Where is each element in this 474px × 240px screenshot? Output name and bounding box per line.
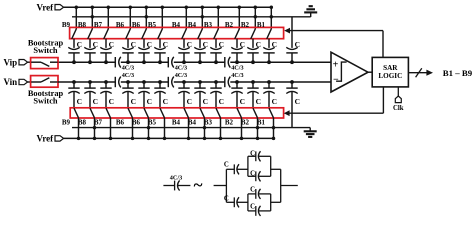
svg-text:4C/3: 4C/3 — [122, 64, 134, 71]
svg-text:C: C — [250, 203, 255, 210]
wire — [220, 118, 222, 139]
node — [235, 80, 239, 84]
capacitor C (bit B3) bottom — [210, 87, 221, 89]
svg-text:B2: B2 — [241, 119, 250, 127]
svg-text:C: C — [93, 40, 98, 49]
svg-text:C: C — [256, 40, 261, 49]
switch B7 top — [104, 29, 109, 39]
node — [214, 60, 218, 64]
wire — [89, 53, 91, 62]
capacitor C (bit B6) top — [122, 47, 133, 49]
capacitor C5 parallel upper — [255, 189, 257, 199]
capacitor C (bit B4) bottom — [194, 87, 205, 89]
wire — [271, 201, 281, 203]
switch B5 top — [158, 29, 163, 39]
port Clk — [395, 96, 401, 103]
wire — [148, 118, 150, 139]
node top rail junction B4 — [185, 5, 189, 9]
wire cap lead B2 top — [252, 39, 254, 48]
capacitor C termination bottom — [286, 87, 297, 89]
svg-text:C: C — [272, 40, 277, 49]
wire — [163, 185, 174, 187]
svg-text:4C/3: 4C/3 — [122, 72, 134, 79]
wire — [258, 210, 270, 212]
svg-text:C: C — [295, 97, 300, 106]
wire — [89, 92, 91, 109]
wire — [248, 175, 256, 177]
switch S2 contacts — [31, 81, 41, 83]
svg-text:B1: B1 — [257, 21, 266, 29]
capacitor C (bit B2) top — [247, 47, 258, 49]
node — [198, 60, 202, 64]
wire loop left — [247, 194, 249, 211]
node — [219, 137, 223, 141]
arrow feedback bottom — [284, 110, 290, 116]
wire loop left — [247, 156, 249, 176]
node — [158, 60, 162, 64]
wire — [248, 155, 256, 157]
wire SAR output — [408, 72, 427, 74]
switch B6 top — [126, 29, 131, 39]
svg-text:B2: B2 — [225, 21, 234, 29]
wire switch column B5 top drop — [161, 7, 163, 29]
node — [235, 60, 239, 64]
switch S1 arm — [41, 62, 49, 66]
wire switch column B7 top drop — [107, 7, 109, 29]
wire — [252, 53, 254, 62]
svg-text:B3: B3 — [204, 21, 213, 29]
svg-text:4C/3: 4C/3 — [175, 64, 187, 71]
svg-text:B6: B6 — [116, 21, 125, 29]
svg-text:SAR: SAR — [383, 64, 398, 72]
capacitor C (bit B1) top — [263, 47, 274, 49]
wire — [257, 118, 259, 139]
switch B6 bottom — [128, 108, 133, 118]
capacitor 4C/3 bridge top — [114, 57, 116, 67]
wire — [241, 118, 243, 139]
wire — [268, 53, 270, 62]
node — [198, 80, 202, 84]
wire — [183, 53, 185, 62]
capacitor C (bit B8) bottom — [84, 87, 95, 89]
wire — [248, 210, 256, 212]
switch B3 bottom — [216, 108, 221, 118]
switch B7 bottom — [106, 108, 111, 118]
svg-text:Vin: Vin — [4, 77, 18, 87]
node — [126, 80, 130, 84]
svg-text:C: C — [147, 97, 152, 106]
wire — [143, 92, 145, 109]
svg-text:4C/3: 4C/3 — [231, 72, 243, 79]
wire — [214, 185, 227, 187]
wire cap lead B4 top — [183, 39, 185, 48]
wire switch column B8 top drop — [91, 7, 93, 29]
node — [267, 80, 271, 84]
switch B1 bottom — [269, 108, 274, 118]
wire — [199, 92, 201, 109]
node — [272, 137, 276, 141]
svg-text:B4: B4 — [172, 21, 181, 29]
svg-text:C: C — [77, 40, 82, 49]
arrow output — [426, 70, 433, 76]
wire SAR feedback bottom vertical — [382, 87, 384, 113]
wire — [258, 175, 270, 177]
capacitor C (bit B4) top — [178, 47, 189, 49]
capacitor C termination top — [286, 47, 297, 49]
switch S1 contacts — [31, 61, 41, 63]
svg-text:C: C — [272, 97, 277, 106]
svg-text:Switch: Switch — [33, 46, 58, 55]
wire Clk stub — [397, 87, 399, 96]
node top rail junction B9 — [75, 5, 79, 9]
wire switch column B4 top drop — [185, 7, 187, 29]
wire SAR feedback bottom horizontal — [289, 112, 383, 114]
switch B4 bottom — [200, 108, 205, 118]
node top rail junction B6 — [145, 5, 149, 9]
switch B2 bottom — [237, 108, 242, 118]
svg-text:C: C — [131, 40, 136, 49]
capacitor 4C/3 bridge bottom — [224, 77, 226, 87]
svg-text:C: C — [295, 40, 300, 49]
wire Vin top-plate rail — [174, 81, 225, 83]
wire — [252, 92, 254, 109]
wire switch column B6 top drop — [129, 7, 131, 29]
svg-text:B9: B9 — [62, 119, 71, 127]
wire — [105, 92, 107, 109]
node — [104, 80, 108, 84]
node — [251, 60, 255, 64]
wire — [143, 53, 145, 62]
switch B9 top — [72, 29, 77, 39]
wire bottom second rail — [72, 127, 310, 129]
capacitor 4C/3 bridge top — [167, 57, 169, 67]
wire right bus — [280, 169, 282, 202]
svg-text:C: C — [131, 97, 136, 106]
wire — [78, 118, 80, 139]
svg-text:C: C — [187, 97, 192, 106]
wire — [237, 201, 248, 203]
wire cap lead B6 top — [127, 39, 129, 48]
switch S2 arm — [41, 78, 49, 82]
svg-text:C: C — [93, 97, 98, 106]
bootstrap switch S1 (red box) — [31, 58, 58, 69]
wire — [183, 92, 185, 109]
svg-text:4C/3: 4C/3 — [170, 174, 182, 181]
node — [182, 80, 186, 84]
capacitor C6 parallel lower — [255, 206, 257, 216]
wire cap lead B1 bottom — [268, 82, 270, 88]
svg-text:Vip: Vip — [4, 57, 18, 67]
node top rail junction B5 — [161, 5, 165, 9]
capacitor C (bit B4) bottom — [178, 87, 189, 89]
wire — [237, 168, 248, 170]
wire — [236, 53, 238, 62]
node second-rail junction B6 — [145, 15, 149, 19]
svg-text:C: C — [219, 97, 224, 106]
svg-text:B5: B5 — [148, 21, 157, 29]
op-amp comparator U1 — [331, 52, 368, 92]
wire — [73, 92, 75, 109]
wire — [226, 201, 234, 203]
capacitor C3 parallel lower — [255, 171, 257, 181]
svg-text:C: C — [203, 97, 208, 106]
node — [214, 80, 218, 84]
wire top second rail — [72, 16, 311, 18]
svg-text:B7: B7 — [94, 21, 103, 29]
wire cap lead B6 top — [143, 39, 145, 48]
svg-text:B1 – B9: B1 – B9 — [443, 68, 473, 78]
wire — [215, 92, 217, 109]
wire left bus — [225, 169, 227, 202]
bootstrap switch S2 (red box) — [31, 76, 58, 88]
latch symbol — [336, 62, 347, 81]
switch B6 top — [142, 29, 147, 39]
wire cap lead B5 top — [159, 39, 161, 48]
wire Vip top-plate rail — [174, 61, 225, 63]
SAR LOGIC block — [372, 57, 408, 87]
wire cap lead B5 bottom — [159, 82, 161, 88]
switch B2 top — [235, 29, 240, 39]
wire cap lead B4 top — [199, 39, 201, 48]
ground bottom — [309, 128, 311, 132]
capacitor C (bit B2) bottom — [231, 87, 242, 89]
svg-text:C: C — [224, 196, 229, 203]
node — [203, 126, 207, 130]
capacitor C4 series bottom branch — [233, 197, 235, 207]
svg-text:C: C — [250, 170, 255, 177]
capacitor C (bit B6) top — [138, 47, 149, 49]
svg-text:B4: B4 — [188, 119, 197, 127]
svg-text:C: C — [256, 97, 261, 106]
wire — [204, 118, 206, 139]
wire Vin top-plate rail — [58, 81, 115, 83]
capacitor C (bit B9) top — [68, 47, 79, 49]
wire — [28, 61, 31, 63]
wire — [73, 53, 75, 62]
svg-text:B2: B2 — [241, 21, 250, 29]
svg-text:C: C — [203, 40, 208, 49]
wire cap lead B2 bottom — [252, 82, 254, 88]
wire — [199, 53, 201, 62]
capacitor C (bit B3) top — [210, 47, 221, 49]
wire cap lead B6 bottom — [127, 82, 129, 88]
capacitor 4C/3 equivalent — [174, 181, 176, 191]
wire cap lead B8 top — [89, 39, 91, 48]
node — [88, 60, 92, 64]
capacitor 4C/3 bridge bottom — [167, 77, 169, 87]
wire SAR feedback top vertical — [382, 31, 384, 58]
wire — [159, 92, 161, 109]
node top rail junction B4 — [201, 5, 205, 9]
svg-text:C: C — [109, 97, 114, 106]
wire — [110, 118, 112, 139]
node second-rail junction B8 — [91, 15, 95, 19]
node second-rail junction B2 — [254, 15, 257, 19]
capacitor C (bit B2) bottom — [247, 87, 258, 89]
wire termination cap top lead — [291, 17, 293, 48]
svg-text:−: − — [333, 75, 339, 86]
node — [267, 60, 271, 64]
svg-text:4C/3: 4C/3 — [175, 72, 187, 79]
svg-text:B7: B7 — [94, 119, 103, 127]
capacitor C (bit B6) bottom — [138, 87, 149, 89]
switch B5 bottom — [160, 108, 165, 118]
svg-text:B3: B3 — [204, 119, 213, 127]
wire — [164, 118, 166, 139]
svg-text:C: C — [224, 161, 229, 168]
switch B2 top — [251, 29, 256, 39]
node — [109, 137, 113, 141]
wire — [188, 118, 190, 139]
wire — [177, 185, 190, 187]
node — [88, 80, 92, 84]
wire cap lead B8 bottom — [89, 82, 91, 88]
svg-text:C: C — [77, 97, 82, 106]
node top rail junction B3 — [217, 5, 221, 9]
node — [104, 60, 108, 64]
svg-text:C: C — [163, 40, 168, 49]
switch B1 top — [267, 29, 272, 39]
wire cap lead B4 bottom — [199, 82, 201, 88]
wire switch column B2 top drop — [238, 7, 240, 29]
svg-text:C: C — [250, 186, 255, 193]
wire loop right — [270, 156, 272, 176]
wire Vin top-plate rail — [121, 81, 169, 83]
capacitor C (bit B8) top — [84, 47, 95, 49]
wire — [248, 193, 256, 195]
wire — [271, 168, 281, 170]
svg-text:Clk: Clk — [393, 105, 404, 112]
svg-text:B6: B6 — [116, 119, 125, 127]
svg-text:B9: B9 — [62, 21, 71, 29]
node — [240, 137, 244, 141]
wire — [127, 92, 129, 109]
wire cap lead B4 bottom — [183, 82, 185, 88]
svg-text:+: + — [333, 60, 339, 71]
wire — [281, 185, 298, 187]
svg-text:B6: B6 — [132, 119, 141, 127]
wire Vip top-plate rail — [121, 61, 169, 63]
wire — [28, 81, 31, 83]
svg-text:4C/3: 4C/3 — [231, 64, 243, 71]
wire cap lead B6 bottom — [143, 82, 145, 88]
svg-text:C: C — [219, 40, 224, 49]
wire cap lead B2 top — [236, 39, 238, 48]
wire — [127, 53, 129, 62]
wire switch column B4 top drop — [201, 7, 203, 29]
switch B4 top — [182, 29, 187, 39]
wire cap lead B1 top — [268, 39, 270, 48]
capacitor C1 series top branch — [233, 164, 235, 174]
wire — [215, 53, 217, 62]
wire cap lead B9 top — [73, 39, 75, 48]
svg-text:C: C — [240, 97, 245, 106]
wire switch column B9 top drop — [75, 7, 77, 29]
bus slash — [416, 68, 422, 77]
wire Vip top-plate rail — [230, 61, 331, 63]
wire — [258, 155, 270, 157]
node — [72, 80, 76, 84]
wire switch column B3 top drop — [217, 7, 219, 29]
svg-text:B8: B8 — [78, 21, 87, 29]
node — [142, 80, 146, 84]
wire comparator output — [368, 71, 372, 73]
node — [272, 126, 276, 130]
svg-text:~: ~ — [194, 176, 203, 195]
node top rail junction B6 — [129, 5, 133, 9]
node — [203, 137, 207, 141]
switch B8 bottom — [90, 108, 95, 118]
switch bank bottom (red box) — [70, 108, 283, 118]
wire — [159, 53, 161, 62]
wire — [291, 92, 293, 128]
wire Vin top-plate rail — [230, 81, 331, 83]
wire — [273, 118, 275, 139]
node — [256, 137, 260, 141]
node — [126, 60, 130, 64]
capacitor C (bit B5) bottom — [154, 87, 165, 89]
capacitor C2 parallel upper — [255, 151, 257, 161]
svg-text:C: C — [109, 40, 114, 49]
wire switch column B6 top drop — [145, 7, 147, 29]
node — [72, 60, 76, 64]
wire — [268, 92, 270, 109]
node top rail junction B2 — [254, 5, 257, 9]
svg-text:B8: B8 — [78, 119, 87, 127]
switch B2 bottom — [253, 108, 258, 118]
node top rail junction B8 — [91, 5, 95, 9]
wire — [236, 92, 238, 109]
capacitor C (bit B6) bottom — [122, 87, 133, 89]
capacitor C (bit B4) top — [194, 47, 205, 49]
node top rail junction B2 — [238, 5, 242, 9]
capacitor C (bit B2) top — [231, 47, 242, 49]
node — [158, 80, 162, 84]
wire Vref- bottom rail — [64, 137, 274, 139]
ground top (inverted) — [310, 13, 312, 17]
wire cap lead B9 bottom — [73, 82, 75, 88]
switch B4 bottom — [184, 108, 189, 118]
node — [182, 60, 186, 64]
svg-text:Vref: Vref — [37, 2, 55, 12]
svg-text:B1: B1 — [257, 119, 266, 127]
node — [290, 80, 294, 84]
node — [77, 137, 81, 141]
wire Vip top-plate rail — [58, 61, 115, 63]
svg-text:C: C — [187, 40, 192, 49]
node — [163, 137, 167, 141]
svg-text:Switch: Switch — [33, 96, 58, 105]
switch B4 top — [198, 29, 203, 39]
svg-text:Vref: Vref — [37, 134, 55, 144]
switch B3 top — [214, 29, 219, 39]
node — [187, 137, 191, 141]
capacitor C (bit B1) bottom — [263, 87, 274, 89]
wire cap lead B7 bottom — [105, 82, 107, 88]
wire termination cap bottom lead — [291, 82, 293, 88]
switch B8 top — [88, 29, 93, 39]
node — [290, 60, 294, 64]
capacitor C (bit B5) top — [154, 47, 165, 49]
svg-text:B4: B4 — [172, 119, 181, 127]
svg-text:C: C — [250, 150, 255, 157]
svg-text:C: C — [147, 40, 152, 49]
wire — [226, 168, 234, 170]
wire cap lead B3 top — [215, 39, 217, 48]
wire — [105, 53, 107, 62]
node — [147, 126, 151, 130]
node — [147, 137, 151, 141]
